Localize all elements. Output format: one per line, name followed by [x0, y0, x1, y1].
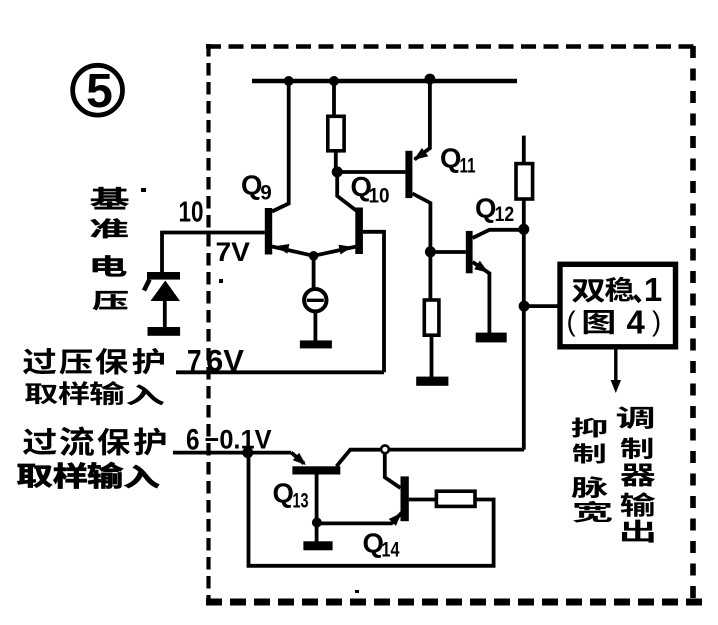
svg-text:11: 11 — [460, 154, 476, 178]
svg-text:14: 14 — [382, 538, 400, 562]
svg-text:12: 12 — [495, 202, 515, 226]
svg-text:4: 4 — [627, 304, 646, 341]
svg-text:(: ( — [567, 306, 576, 337]
svg-text:10: 10 — [179, 197, 204, 229]
svg-text:Q: Q — [273, 478, 294, 509]
svg-text:Q: Q — [241, 169, 262, 200]
svg-text:10: 10 — [369, 184, 390, 208]
svg-text:7V: 7V — [216, 237, 251, 267]
svg-text:1: 1 — [644, 271, 662, 308]
svg-text:7: 7 — [187, 344, 202, 380]
svg-text:6V: 6V — [206, 343, 244, 378]
svg-text:−0.1V: −0.1V — [205, 425, 272, 455]
svg-text:Q: Q — [475, 193, 496, 224]
svg-text:9: 9 — [260, 180, 272, 204]
svg-text:13: 13 — [293, 489, 309, 513]
svg-text:Q: Q — [440, 143, 461, 174]
svg-text:6: 6 — [186, 424, 200, 457]
svg-text:5: 5 — [86, 65, 113, 118]
svg-text:): ) — [652, 306, 661, 337]
